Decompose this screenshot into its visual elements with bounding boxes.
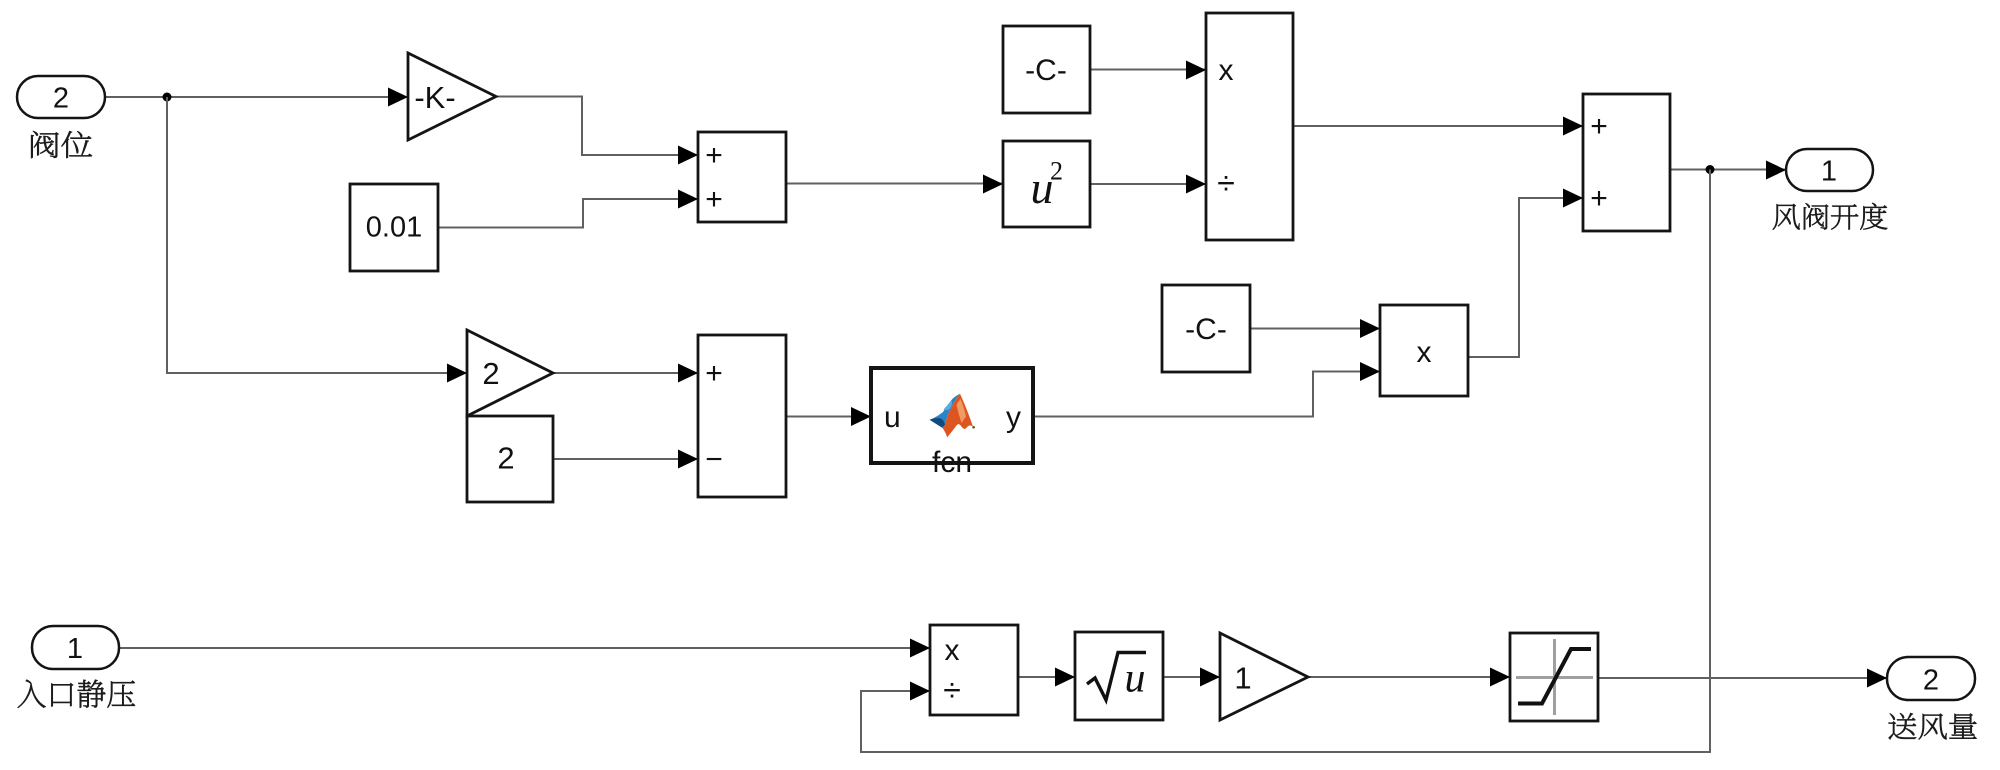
gain -K- <box>408 53 496 140</box>
svg-text:y: y <box>1006 401 1021 434</box>
svg-text:2: 2 <box>1923 665 1939 697</box>
arrowhead into sum2 plus <box>678 364 698 383</box>
svg-text:u: u <box>884 401 901 434</box>
arrowhead into sqrt <box>1055 668 1075 687</box>
svg-text:1: 1 <box>1821 156 1837 188</box>
wire sum1 to u^2 <box>786 183 1003 185</box>
arrowhead into gain -K- <box>388 88 408 107</box>
junction dot at valve-position branch <box>163 93 172 102</box>
svg-text:-C-: -C- <box>1025 54 1067 87</box>
wire gain 2 to sum2 plus <box>553 372 698 374</box>
svg-text:÷: ÷ <box>1217 165 1235 201</box>
arrowhead into sum2 minus <box>678 450 698 469</box>
arrowhead into sum1 in2 <box>678 190 698 209</box>
svg-text:x: x <box>1417 336 1432 369</box>
svg-text:1: 1 <box>67 633 83 665</box>
arrowhead into u^2 <box>983 175 1003 194</box>
svg-text:+: + <box>705 183 723 216</box>
gain 1 <box>1220 633 1308 720</box>
label 送风量 <box>1889 713 1977 740</box>
outport 1 (damper opening) <box>1786 149 1873 191</box>
sum1 (+ +) <box>698 132 786 222</box>
wire product x to sum3 in2 <box>1468 198 1583 357</box>
arrowhead into saturation <box>1490 668 1510 687</box>
inport 2 (valve position) <box>17 76 105 118</box>
wire inport2 to gain -K- <box>105 96 408 98</box>
arrowhead into product/divide x <box>1186 61 1206 80</box>
wire u^2 to product/divide divide input <box>1090 183 1206 185</box>
MATLAB logo <box>930 394 975 438</box>
svg-text:2: 2 <box>1050 157 1063 186</box>
svg-text:2: 2 <box>53 83 69 115</box>
wire sqrt to gain 1 <box>1163 676 1220 678</box>
product x (middle) <box>1380 305 1468 396</box>
wire inport1 to bottom product x input <box>119 647 930 649</box>
arrowhead into sum3 in1 <box>1563 117 1583 136</box>
arrowhead into product x in1 <box>1360 319 1380 338</box>
arrowhead into product x in2 <box>1360 362 1380 381</box>
arrowhead into sum3 in2 <box>1563 189 1583 208</box>
saturation block <box>1510 633 1598 721</box>
constant 2 <box>467 416 553 502</box>
svg-text:+: + <box>1590 182 1608 215</box>
wire constant 0.01 to sum1 in2 <box>438 199 698 228</box>
feedback wire to bottom product divide input <box>861 170 1710 753</box>
label 入口静压 <box>18 680 135 708</box>
svg-text:÷: ÷ <box>943 672 961 708</box>
svg-text:+: + <box>705 357 723 390</box>
constant 0.01 <box>350 184 438 271</box>
wire gain -K- to sum1 in1 <box>496 97 698 156</box>
svg-text:x: x <box>945 634 960 667</box>
svg-text:+: + <box>1590 110 1608 143</box>
arrowhead into outport1 <box>1766 161 1786 180</box>
wire constant -C- (top) to product/divide x input <box>1090 69 1206 71</box>
svg-text:+: + <box>705 139 723 172</box>
svg-text:−: − <box>705 443 723 476</box>
arrowhead into product/divide divide <box>1186 175 1206 194</box>
wire product/divide to sum3 in1 <box>1293 125 1583 127</box>
junction dot at damper-opening branch <box>1706 165 1715 174</box>
wire bottom product to sqrt <box>1018 676 1075 678</box>
svg-text:0.01: 0.01 <box>366 212 422 244</box>
constant -C- (top) <box>1003 26 1090 113</box>
svg-text:1: 1 <box>1234 661 1251 696</box>
label 阀位 <box>31 131 92 158</box>
svg-text:x: x <box>1219 54 1234 87</box>
label 风阀开度 <box>1773 203 1888 230</box>
svg-text:u: u <box>1125 656 1146 702</box>
outport 2 (supply air volume) <box>1887 657 1975 700</box>
svg-text:2: 2 <box>497 441 514 476</box>
product/divide (tall, x over divide) <box>1206 13 1293 240</box>
math function u^2 <box>1003 141 1090 227</box>
arrowhead into sum1 in1 <box>678 146 698 165</box>
sqrt block <box>1075 632 1163 720</box>
arrowhead into bottom product x <box>910 639 930 658</box>
MATLAB function block fcn <box>871 368 1033 463</box>
arrowhead into gain 2 <box>447 364 467 383</box>
sum3 (+ +) <box>1583 94 1670 231</box>
arrowhead into outport2 <box>1867 669 1887 688</box>
wire sum3 to outport1 <box>1670 169 1786 171</box>
gain 2 <box>467 330 553 416</box>
wire saturation to outport2 <box>1598 677 1887 679</box>
inport 1 (inlet static pressure) <box>32 626 119 669</box>
arrowhead into MATLAB function u <box>851 407 871 426</box>
wire constant 2 to sum2 minus <box>553 458 698 460</box>
wire constant -C- (middle) to product x in1 <box>1250 328 1380 330</box>
svg-text:-K-: -K- <box>414 80 455 115</box>
arrowhead into bottom product divide <box>910 682 930 701</box>
wire branch down to gain 2 <box>167 97 467 373</box>
sum2 (+ -) <box>698 335 786 497</box>
arrowhead into gain 1 <box>1200 668 1220 687</box>
bottom product (x divide) <box>930 625 1018 715</box>
constant -C- (middle) <box>1162 285 1250 372</box>
wire sum2 to MATLAB function <box>786 416 871 418</box>
wire gain 1 to saturation <box>1308 676 1510 678</box>
svg-text:fcn: fcn <box>932 446 972 479</box>
svg-text:-C-: -C- <box>1185 313 1227 346</box>
svg-text:2: 2 <box>482 356 499 391</box>
wire MATLAB function y to product x in2 <box>1033 372 1380 417</box>
